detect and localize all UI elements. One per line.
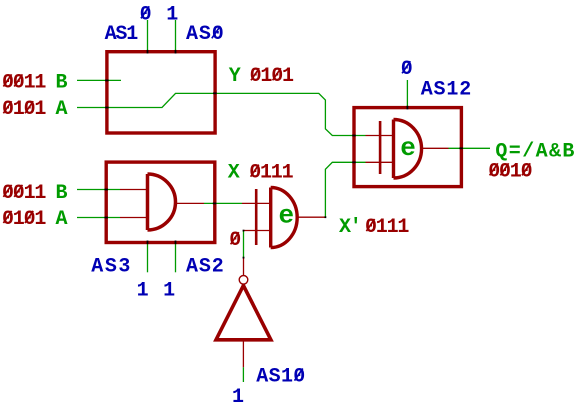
junction AS1 wire at U1 box top [147,50,149,54]
pin label AS2 [186,256,223,279]
value label 0101 for A (lower) [2,208,46,231]
junction B wire at U1 box left [105,80,109,82]
junction AS2 wire at U2 box bottom [175,241,177,245]
junction AS0 wire at U1 box top [175,50,177,54]
value label 1 above AS0 [166,3,178,26]
wire net A to AND U2 [77,217,146,219]
svg-text:0111: 0111 [365,216,409,239]
junction B wire at U2 box left [104,189,108,191]
value label 0111 for X' [365,216,409,239]
net label Y [229,65,241,88]
svg-text:AS0: AS0 [186,23,223,46]
value label 0010 for Q [488,160,531,183]
svg-text:1: 1 [232,386,244,405]
wire net B to AND U2 [77,189,146,191]
value label 0011 for B (lower) [2,182,46,205]
value label 0 above AS12 [401,58,412,81]
svg-text:AS12: AS12 [421,78,470,101]
wire AS2 enable [175,244,177,272]
svg-text:0011: 0011 [2,182,46,205]
value label 0101 for Y [250,65,294,88]
value label 0101 for A (top) [2,98,46,121]
wire output Q from XOR U4 [423,147,490,149]
net label A (lower) [56,208,68,231]
svg-text:X: X [228,162,240,185]
junction A wire at U2 box left [104,217,108,219]
inverter U5 triangle [216,286,271,340]
junction X wire at U2 box right [213,203,217,205]
svg-text:1: 1 [137,280,149,303]
junction Y wire at U1 box right [213,92,217,94]
wire AS1 select input [147,20,149,52]
net label B (lower) [56,182,68,205]
XOR U4 gate symbol [380,120,421,179]
svg-text:1: 1 [163,280,175,303]
svg-text:e: e [400,133,416,163]
wire AS12 enable [406,80,408,109]
pin label AS10 [256,366,304,389]
svg-text:Y: Y [229,65,241,88]
value label 0 above AS1 [140,3,151,26]
wire AS3 enable [147,244,149,272]
net label X' [339,216,361,239]
svg-text:A: A [56,208,68,231]
value label 1 below AS2 [163,280,175,303]
junction X' corner [325,216,327,218]
svg-text:A: A [56,98,68,121]
net label X [228,162,240,185]
junction X' wire at U4 box left [352,161,356,163]
wire AS0 select input [175,20,177,52]
pin label AS0 [186,23,223,46]
pin label AS12 [421,78,470,101]
pin label AS1 [105,23,139,46]
junction corner inverter to XOR U3 [243,230,245,232]
AND U2 gate symbol [148,174,176,230]
value label 1 below AS3 [137,280,149,303]
value label 0 at XOR U3 lower input [229,229,240,252]
value label 0011 for B (top) [2,71,46,94]
svg-text:0101: 0101 [2,98,46,121]
svg-text:B: B [56,71,68,94]
svg-text:B: B [56,182,68,205]
junction Y wire at U4 box left [352,135,356,137]
XOR U4 gate label e [400,133,416,163]
value label 1 below AS10 [232,386,244,405]
net label A (top) [56,98,68,121]
svg-text:e: e [279,200,295,230]
junction Q wire at U4 box right [459,147,463,149]
wire net A through MUX U1 to Y [77,93,366,135]
XOR U3 gate symbol [256,188,297,248]
wire inverter U5 output to XOR U3 lower input [244,231,270,276]
XOR U3 gate label e [279,200,295,230]
wire net X from AND U2 to XOR U3 [176,202,269,204]
svg-text:X': X' [339,216,361,239]
pin label AS3 [91,256,129,279]
svg-text:0101: 0101 [250,65,294,88]
svg-text:0111: 0111 [249,162,293,185]
net label B (top) [56,71,68,94]
svg-text:AS3: AS3 [91,256,129,279]
value label 0111 for X [249,162,293,185]
junction color change below triangle [243,257,245,259]
inverter U5 bubble [239,276,248,285]
XOR U4 box [354,108,461,187]
svg-text:AS1: AS1 [105,23,139,46]
junction AS3 wire at U2 box bottom [147,241,149,245]
wire net X' from XOR U3 to U4 lower input [298,162,392,217]
wire inverter U5 input [242,341,244,382]
MUX U1 box [107,52,215,133]
svg-text:0101: 0101 [2,208,46,231]
wire Y red segment inside U4 box [366,135,393,137]
svg-text:0011: 0011 [2,71,46,94]
junction A wire at U1 box left [105,107,109,109]
net label Q=/A&B [495,140,574,163]
svg-text:1: 1 [166,3,178,26]
wire net B to MUX U1 [77,79,121,81]
junction AS12 wire at U4 box top [407,106,409,110]
svg-text:AS2: AS2 [186,256,223,279]
AND U2 box [106,162,215,242]
